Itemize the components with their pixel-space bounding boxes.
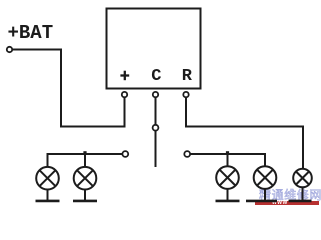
wire C terminal down: [155, 98, 157, 167]
junction node lamp L2: [83, 151, 86, 154]
ground L1: [36, 200, 60, 203]
terminal node right bus end: [184, 151, 190, 157]
ground L3: [216, 200, 240, 203]
wire lamp L3 stem: [227, 154, 229, 167]
wire left lamp bus: [48, 154, 123, 167]
lamp L4: [254, 166, 277, 189]
svg-text:C: C: [151, 67, 161, 86]
wire right lamp bus: [191, 154, 266, 167]
connector node on C wire: [153, 125, 159, 131]
lamp L5: [293, 169, 312, 188]
wire R terminal to right lamp: [186, 98, 303, 168]
ground L4: [246, 200, 277, 203]
wire +BAT to + terminal: [12, 50, 125, 127]
terminal node C pin: [153, 92, 158, 97]
wire lamp L2 stem: [84, 154, 86, 167]
terminal node left bus end: [122, 151, 128, 157]
watermark blue text: [259, 190, 321, 201]
pin label +: [120, 71, 129, 81]
flasher unit box U1: [107, 9, 201, 89]
junction node lamp L3: [226, 151, 229, 154]
watermark white text: [272, 201, 292, 206]
lamp L2: [74, 167, 97, 190]
svg-text:+BAT: +BAT: [8, 22, 54, 44]
ground L2: [73, 200, 97, 203]
lamp L1: [36, 167, 59, 190]
wire lamp L1 ground stem: [47, 190, 49, 201]
terminal node + pin: [122, 92, 127, 97]
wire lamp L2 ground stem: [84, 190, 86, 201]
lamp L3: [216, 166, 239, 189]
terminal node +BAT: [7, 47, 12, 52]
wire lamp L5 ground stem: [302, 188, 304, 201]
wire lamp L3 ground stem: [227, 190, 229, 201]
svg-text:R: R: [182, 67, 193, 86]
watermark red band: [255, 201, 319, 205]
ground L5: [289, 200, 312, 203]
wire lamp L4 ground stem: [264, 190, 266, 201]
terminal node R pin: [183, 92, 188, 97]
